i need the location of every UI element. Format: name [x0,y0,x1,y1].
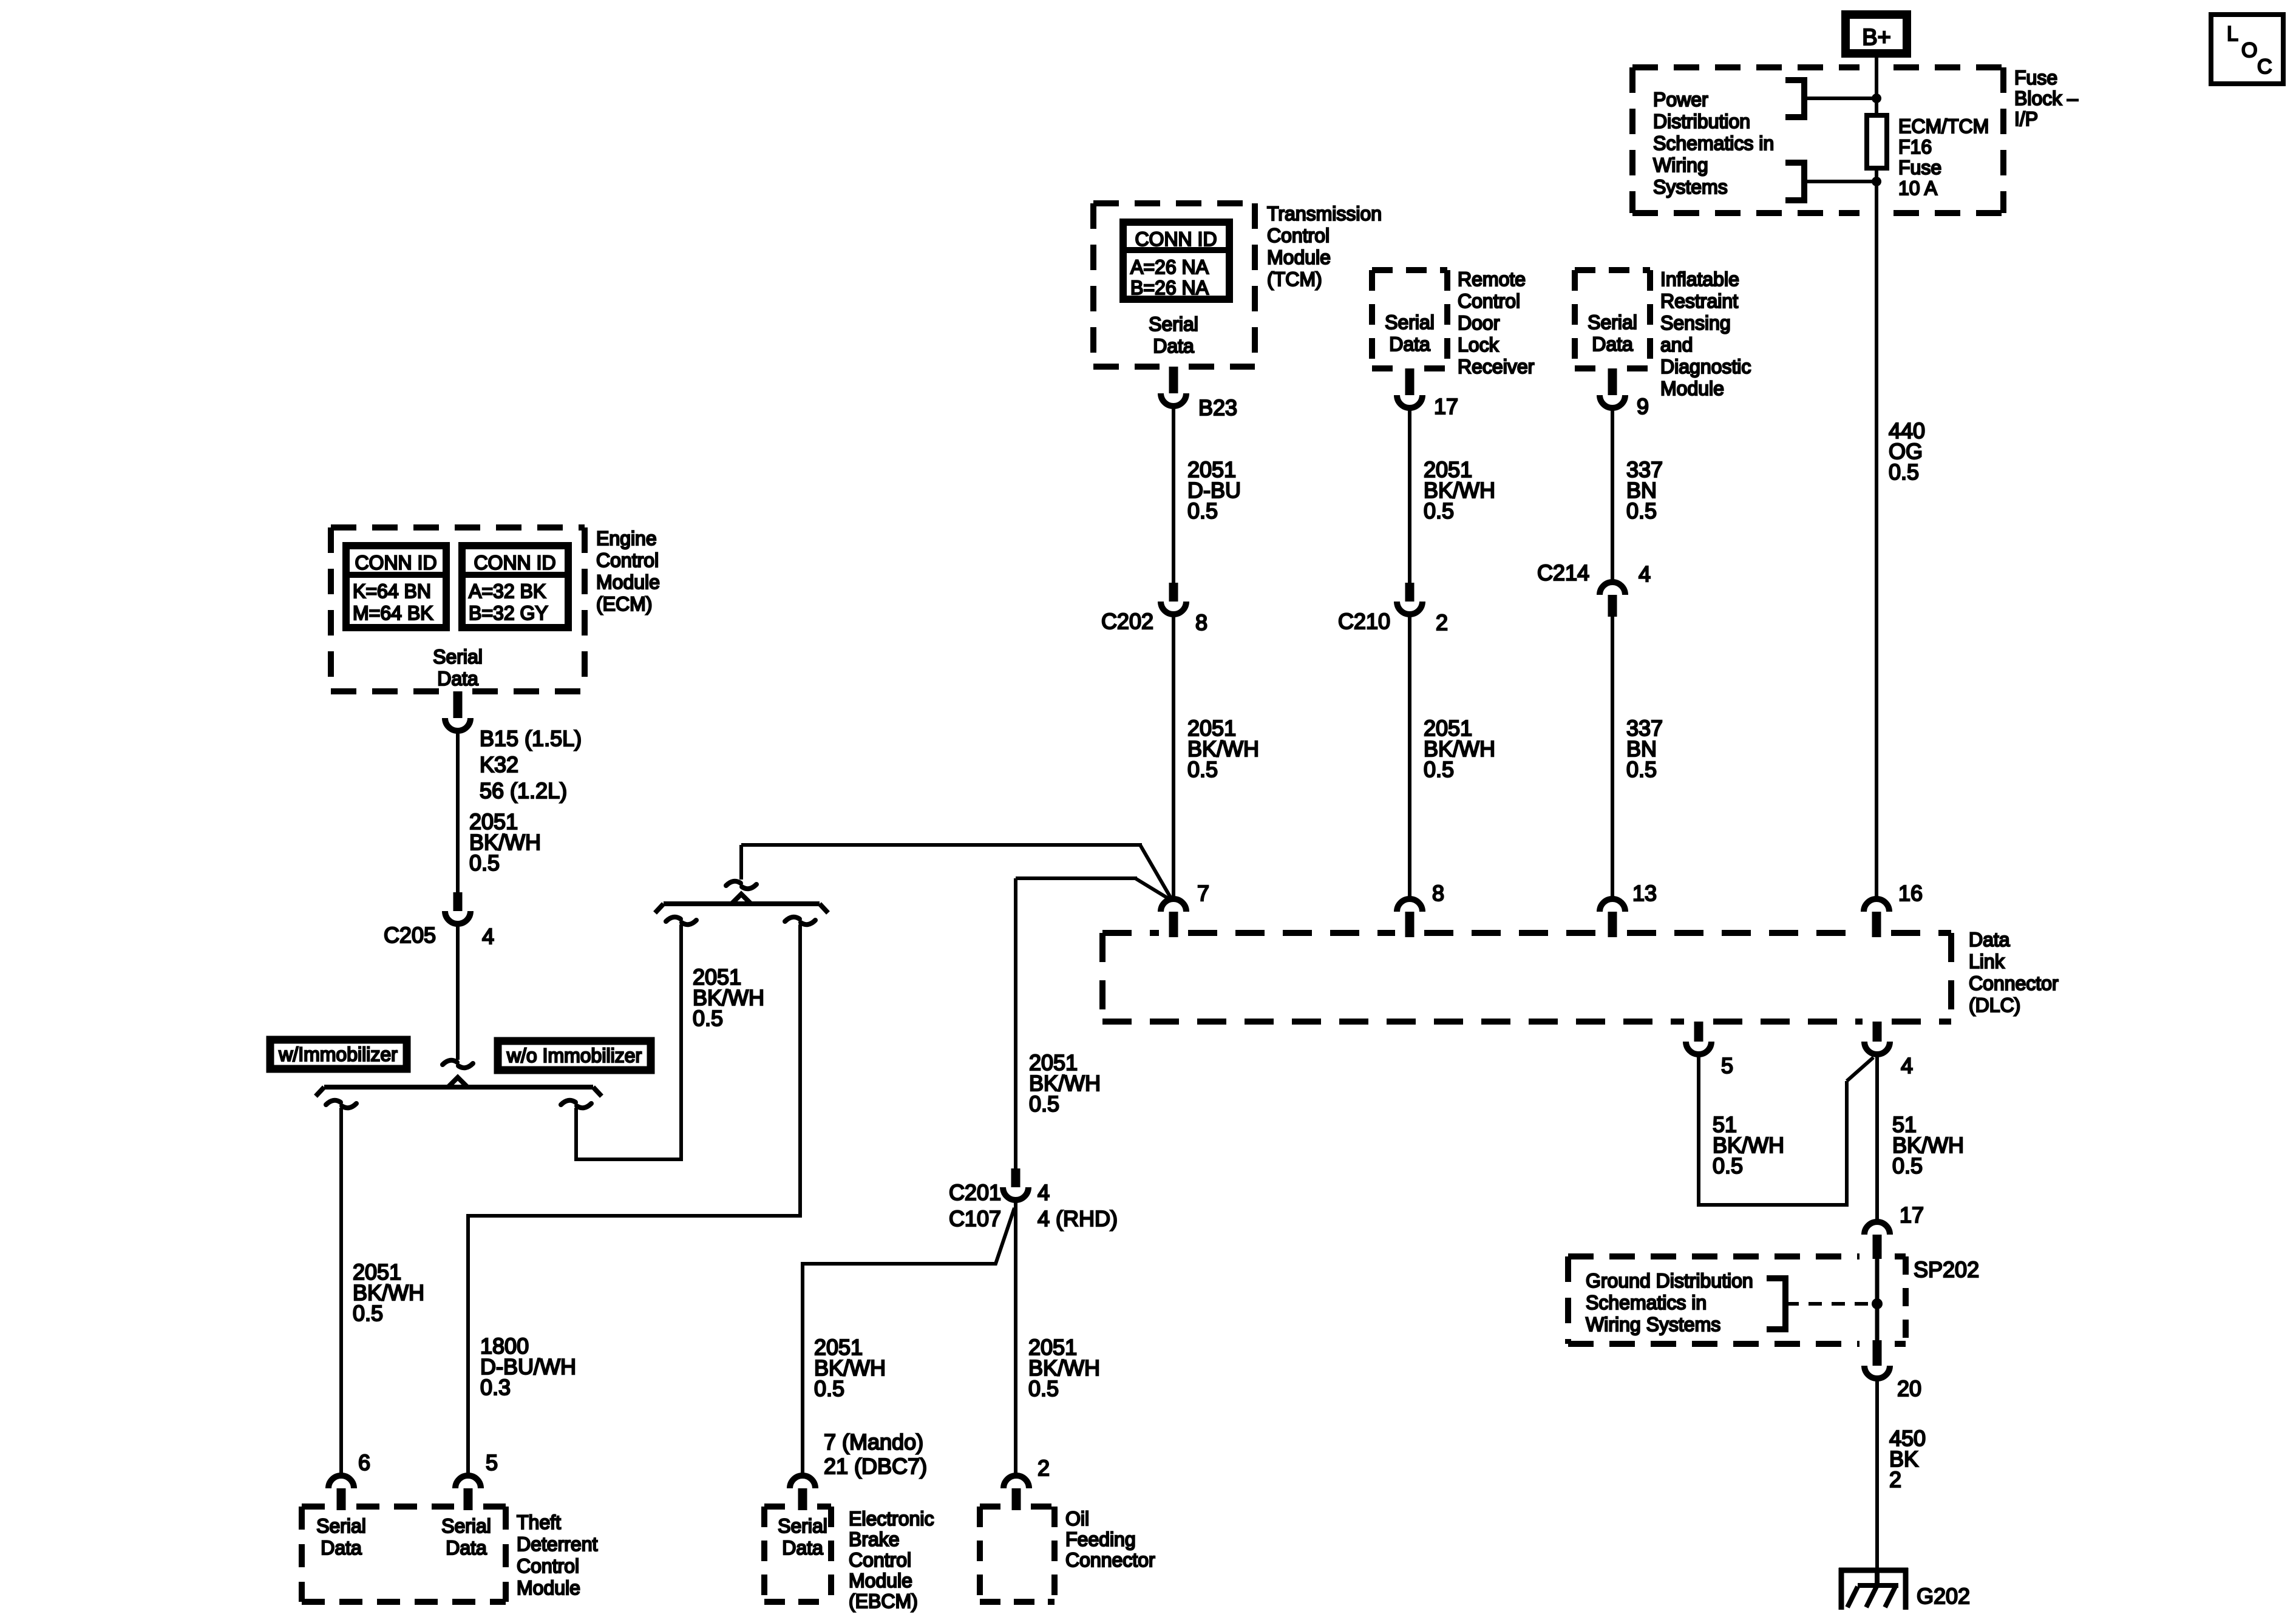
svg-text:Connector: Connector [1969,972,2059,994]
svg-text:Data: Data [321,1537,362,1559]
svg-text:0.5: 0.5 [693,1006,723,1031]
svg-text:Serial: Serial [441,1515,491,1537]
junction dot SP202 [1872,1298,1883,1309]
disconnect mark (right trunk branch) [785,917,800,921]
svg-text:B+: B+ [1862,25,1891,50]
module box: Oil Feeding Connector, dashed [980,1503,1002,1510]
pin 9 connector (SDM) [1608,368,1617,395]
trunk brace (splice to two branches) [664,901,820,906]
svg-text:5: 5 [1721,1053,1733,1078]
svg-text:Diagnostic: Diagnostic [1660,356,1751,378]
svg-text:16: 16 [1898,881,1923,906]
svg-text:4: 4 [1639,561,1651,586]
svg-text:0.5: 0.5 [814,1376,844,1401]
svg-text:(ECM): (ECM) [596,593,652,615]
module box: Inflatable Restraint Sensing and Diagnostic Module, dashed [1575,267,1650,273]
svg-text:20: 20 [1897,1376,1921,1401]
svg-text:4 (RHD): 4 (RHD) [1038,1206,1118,1231]
svg-text:A=32 BK: A=32 BK [469,580,546,602]
wire 51: DLC pin 5 loop to pin 4 [1699,1053,1847,1205]
bracket pointer (upper, Power Distribution) [1785,80,1804,117]
wire 2051: C210 to DLC pin 8 [1408,612,1411,901]
wire 2051: C205 to immobilizer option splice [456,922,460,1060]
option brace (w / w-o immobilizer split) [324,1085,593,1090]
svg-text:Data: Data [1592,333,1633,355]
svg-text:Control: Control [849,1549,911,1571]
svg-text:Schematics in: Schematics in [1586,1292,1707,1314]
svg-text:C107: C107 [949,1206,1001,1231]
svg-text:Fuse: Fuse [1898,157,1941,178]
svg-text:2: 2 [1038,1456,1050,1480]
DLC pin 8 connector [1397,899,1422,912]
svg-text:Control: Control [1458,290,1520,312]
svg-text:G202: G202 [1917,1584,1970,1609]
svg-text:w/Immobilizer: w/Immobilizer [278,1043,398,1065]
svg-text:Control: Control [1267,225,1330,246]
svg-text:Serial: Serial [316,1515,366,1537]
svg-text:Theft: Theft [517,1511,561,1533]
svg-text:0.3: 0.3 [480,1375,511,1400]
pin 17 connector (RCDLR) [1405,368,1415,395]
connector C214 pin 4 (in-line, dome style) [1600,582,1625,595]
connector C210 pin 2 (in-line) [1405,583,1415,602]
svg-text:B23: B23 [1198,395,1237,420]
option box: w/o Immobilizer [498,1041,651,1070]
svg-text:C201: C201 [949,1180,1001,1205]
Fuse Block - I/P dashed box [1632,64,1860,70]
svg-text:Control: Control [596,549,659,571]
svg-text:Module: Module [849,1570,912,1592]
svg-text:Data: Data [1153,335,1194,357]
svg-text:K32: K32 [480,752,518,777]
wire 2051 D-BU: TCM B23 to C202 [1172,404,1175,583]
svg-text:5: 5 [486,1450,498,1475]
svg-text:B15 (1.5L): B15 (1.5L) [480,726,582,751]
svg-text:0.5: 0.5 [1713,1153,1743,1178]
svg-text:8: 8 [1432,881,1444,906]
svg-text:C214: C214 [1537,560,1589,585]
svg-text:Data: Data [446,1537,487,1559]
svg-text:0.5: 0.5 [1626,498,1657,523]
svg-text:Serial: Serial [778,1515,827,1537]
svg-text:17: 17 [1434,394,1458,419]
wire 337: C214 to DLC pin 13 [1611,615,1614,901]
disconnect mark (w/o Immobilizer branch) [561,1100,576,1105]
svg-text:SP202: SP202 [1914,1257,1979,1282]
svg-text:C210: C210 [1338,609,1390,634]
DLC pin 5 connector (bottom) [1694,1022,1703,1042]
svg-text:A=26 NA: A=26 NA [1130,256,1209,278]
svg-text:Link: Link [1969,951,2005,972]
svg-text:Feeding: Feeding [1065,1528,1136,1550]
svg-text:Serial: Serial [1385,311,1435,333]
wire 440: fuse to DLC pin 16 [1875,168,1878,901]
svg-text:Distribution: Distribution [1653,110,1750,132]
power symbol B+ (battery positive box) [1846,15,1907,53]
svg-text:CONN ID: CONN ID [474,552,555,574]
DLC pin 7 connector [1161,899,1186,912]
DLC pin 13 connector [1600,899,1625,912]
svg-text:Schematics in: Schematics in [1653,132,1774,154]
wire 2051: ECM to C205 [456,729,460,892]
svg-text:Wiring: Wiring [1653,154,1708,176]
wire 2051: immobilizer branch down to theft module pin 6 [339,1108,343,1477]
pin 5 connector (theft deterrent) [455,1476,481,1488]
svg-text:w/o Immobilizer: w/o Immobilizer [506,1045,642,1066]
svg-text:21 (DBC7): 21 (DBC7) [824,1454,927,1479]
connector 20 (out of SP202 harness) [1873,1340,1882,1366]
svg-text:C205: C205 [384,923,436,947]
svg-text:(TCM): (TCM) [1267,268,1322,290]
svg-text:Module: Module [517,1577,580,1599]
svg-text:0.5: 0.5 [1028,1376,1059,1401]
svg-text:Power: Power [1653,89,1708,110]
svg-text:9: 9 [1637,394,1649,419]
svg-text:7 (Mando): 7 (Mando) [824,1429,923,1454]
CONN ID box (TCM) [1123,222,1229,299]
pin 7/21 connector (EBCM) [790,1476,815,1488]
svg-text:Connector: Connector [1065,1549,1155,1571]
splice wire through SP202 [1875,1258,1880,1344]
svg-text:Data: Data [782,1537,823,1559]
svg-text:0.5: 0.5 [469,850,500,875]
svg-text:8: 8 [1195,610,1207,635]
pin connector (ECM serial data out) [453,691,463,718]
junction dot (B+ feed / fuse top) [1872,93,1881,103]
svg-text:C: C [2257,55,2272,78]
connector C205 pin 4 (in-line) [453,892,463,911]
connector C201 / C107 pin 4 (in-line) [1011,1168,1021,1187]
svg-text:Transmission: Transmission [1267,203,1382,225]
disconnect mark (left trunk branch) [666,917,681,921]
wire: B+ down to fuse F16 [1875,53,1878,117]
svg-text:0.5: 0.5 [1889,459,1919,484]
svg-text:CONN ID: CONN ID [1135,228,1217,250]
svg-text:L: L [2227,22,2238,46]
svg-text:CONN ID: CONN ID [355,552,436,574]
pin 2 connector (oil feeding) [1004,1476,1029,1488]
option box: w/Immobilizer [270,1040,407,1069]
bracket pointer (lower, Power Distribution) [1785,163,1804,200]
svg-text:Deterrent: Deterrent [517,1533,598,1555]
CONN ID box A/B (ECM) [462,546,568,628]
svg-text:0.5: 0.5 [1187,498,1218,523]
svg-text:10 A: 10 A [1898,177,1938,199]
svg-text:Serial: Serial [1588,311,1637,333]
wire: lower bracket to fuse output [1804,180,1877,183]
wire: C201 riser to DLC pin 7 (lower run) [1016,876,1137,880]
svg-text:Module: Module [1660,378,1724,399]
pin 6 connector (theft deterrent) [328,1476,354,1488]
wire 2051 BK/WH: C202 to DLC pin 7 [1172,612,1175,901]
svg-text:Sensing: Sensing [1660,312,1731,334]
svg-text:Remote: Remote [1458,268,1526,290]
svg-text:Ground Distribution: Ground Distribution [1586,1270,1753,1292]
svg-text:Restraint: Restraint [1660,290,1738,312]
bracket pointer (Ground Distribution) [1767,1278,1785,1329]
svg-text:M=64 BK: M=64 BK [353,602,433,624]
svg-text:Engine: Engine [596,527,657,549]
DLC pin 16 connector [1864,899,1889,912]
svg-text:Fuse: Fuse [2014,67,2057,89]
disconnect mark (w/Immobilizer branch) [326,1100,341,1105]
svg-text:7: 7 [1197,881,1209,906]
fuse ECM/TCM F16 10A symbol [1867,115,1887,168]
module box: EBCM serial data, dashed [764,1503,788,1510]
module box: Engine Control Module (ECM), dashed [331,524,585,531]
wire 2051: C201 to oil feeding connector pin 2 [1014,1198,1017,1477]
svg-text:0.5: 0.5 [1029,1091,1059,1116]
wire: upper bracket to B+ feed [1804,97,1877,100]
svg-text:56 (1.2L): 56 (1.2L) [480,778,567,803]
disconnect mark above trunk brace [726,881,741,886]
svg-text:Brake: Brake [849,1528,900,1550]
wire 337: SDM to C214 [1611,406,1614,583]
module box: Theft Deterrent Control Module serial data, dashed [302,1503,327,1510]
svg-text:Inflatable: Inflatable [1660,268,1739,290]
svg-text:O: O [2241,39,2257,62]
disconnect mark above option brace [443,1060,457,1065]
svg-text:Module: Module [596,571,660,593]
DLC pin 4 connector (bottom) [1873,1022,1882,1042]
svg-text:Data: Data [437,668,478,690]
wire 2051: RCDLR to C210 [1408,406,1411,583]
svg-text:Door: Door [1458,312,1500,334]
svg-text:Oil: Oil [1065,1508,1089,1530]
module box: Data Link Connector (DLC), dashed [1102,930,1159,936]
LOC reference box (page locator icon) [2211,15,2283,84]
svg-text:B=32 GY: B=32 GY [469,602,548,624]
svg-text:4: 4 [1901,1053,1913,1078]
svg-text:Data: Data [1969,929,2010,951]
svg-text:B=26 NA: B=26 NA [1130,277,1209,299]
svg-text:Electronic: Electronic [849,1508,934,1530]
svg-text:0.5: 0.5 [1892,1153,1923,1178]
svg-text:Block –: Block – [2014,87,2078,109]
module box: Remote Control Door Lock Receiver, dashed [1372,267,1447,273]
svg-text:Serial: Serial [433,646,483,668]
svg-text:Data: Data [1389,333,1430,355]
svg-text:0.5: 0.5 [1626,757,1657,782]
svg-text:Serial: Serial [1149,313,1198,335]
svg-text:0.5: 0.5 [1424,498,1454,523]
svg-text:Wiring Systems: Wiring Systems [1586,1314,1720,1335]
svg-text:0.5: 0.5 [1187,757,1218,782]
svg-text:Systems: Systems [1653,176,1728,198]
splice box: Ground Distribution, dashed [1568,1253,1860,1259]
svg-text:13: 13 [1632,881,1657,906]
svg-text:17: 17 [1900,1202,1924,1227]
svg-text:4: 4 [482,924,494,949]
dashed wire: bracket to splice SP202 [1785,1302,1877,1306]
svg-text:0.5: 0.5 [353,1301,383,1326]
junction dot (fuse output) [1872,177,1881,186]
svg-text:2: 2 [1436,610,1448,635]
svg-text:Control: Control [517,1555,579,1577]
wire link: w/o immobilizer branch to serial data splice [576,924,681,1159]
svg-text:Receiver: Receiver [1458,356,1535,378]
wire 450: SP202 to ground G202 [1875,1377,1879,1568]
svg-text:2: 2 [1889,1467,1901,1492]
svg-text:and: and [1660,334,1693,356]
svg-text:6: 6 [358,1450,370,1475]
svg-text:I/P: I/P [2014,108,2038,130]
wire 51: DLC pin 4 to splice SP202 [1875,1053,1879,1222]
connector C202 pin 8 (in-line) [1169,583,1178,602]
svg-text:F16: F16 [1898,136,1932,158]
svg-text:K=64 BN: K=64 BN [353,580,431,602]
wire: serial data trunk to DLC pin 7 (upper run) [741,843,1142,847]
svg-text:ECM/TCM: ECM/TCM [1898,115,1989,137]
svg-text:Lock: Lock [1458,334,1500,356]
svg-text:(EBCM): (EBCM) [849,1590,918,1612]
svg-text:0.5: 0.5 [1424,757,1454,782]
CONN ID box K/M (ECM) [346,546,446,628]
pin B23 connector (TCM serial data out) [1169,367,1178,393]
svg-text:(DLC): (DLC) [1969,994,2020,1016]
ground G202 symbol [1839,1568,1908,1573]
module box: Transmission Control Module (TCM), dashed [1093,200,1255,206]
svg-text:4: 4 [1038,1180,1050,1205]
wire 2051: C201 branch to EBCM pin [803,1208,1014,1477]
connector 17 (into SP202 harness) [1864,1222,1890,1235]
wire 1800 branch: brace to theft module pin 5 [468,924,800,1477]
svg-text:Module: Module [1267,246,1331,268]
svg-text:C202: C202 [1101,609,1153,634]
